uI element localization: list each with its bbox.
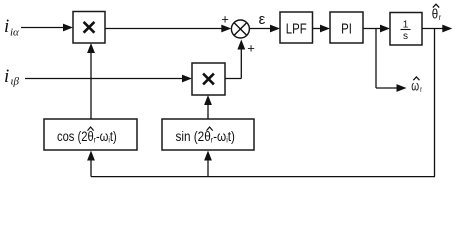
wire PI output branch to omega <box>376 29 407 92</box>
wire feedback up to cos block <box>87 151 95 177</box>
svg-text:ω: ω <box>411 78 419 94</box>
svg-text:ιβ: ιβ <box>11 76 20 88</box>
svg-text:+: + <box>221 11 229 26</box>
output label theta_hat_r <box>432 4 442 22</box>
svg-text:+: + <box>247 41 255 56</box>
svg-text:i: i <box>4 16 9 37</box>
wire sin block to M2 <box>204 95 212 119</box>
output wire theta_r <box>422 25 452 33</box>
svg-text:LPF: LPF <box>286 20 307 37</box>
svg-text:ε: ε <box>259 11 266 28</box>
wire PI to integrator <box>363 25 390 33</box>
svg-text:i: i <box>4 66 9 87</box>
svg-text:cos (2θr-ωit): cos (2θr-ωit) <box>57 129 117 145</box>
svg-text:sin (2θr-ωit): sin (2θr-ωit) <box>176 128 235 145</box>
feedback wire down from output node <box>434 29 436 177</box>
wire cos block to M1 <box>87 43 95 119</box>
svg-text:iα: iα <box>10 27 19 39</box>
input label i_ibeta <box>4 66 20 88</box>
wire feedback up to sin block <box>204 151 212 177</box>
bottom feedback wire <box>91 176 435 178</box>
label omega_hat_r <box>411 77 422 94</box>
wire summer to LPF <box>249 25 280 33</box>
wire i_ialpha to multiplier M1 <box>21 24 73 32</box>
summing junction S1 <box>231 20 249 38</box>
svg-text:1: 1 <box>403 20 409 31</box>
wire i_ibeta to multiplier M2 <box>25 75 192 83</box>
block integrator 1/s <box>390 13 422 46</box>
wire M1 to summer <box>105 25 231 33</box>
svg-text:s: s <box>403 31 408 42</box>
block LPF <box>280 12 313 43</box>
wire LPF to PI <box>313 25 331 33</box>
svg-text:θ: θ <box>432 5 438 21</box>
block cos(2theta_r - w_i t) <box>44 119 137 150</box>
multiplier M2 <box>192 63 225 95</box>
block PI <box>330 12 363 43</box>
block sin(2theta_r - w_i t) <box>162 119 254 150</box>
svg-text:r: r <box>439 12 442 22</box>
input label i_ialpha <box>4 16 19 39</box>
svg-text:PI: PI <box>341 20 352 37</box>
wire M2 to summer lower input <box>225 40 245 79</box>
multiplier M1 <box>73 12 105 44</box>
